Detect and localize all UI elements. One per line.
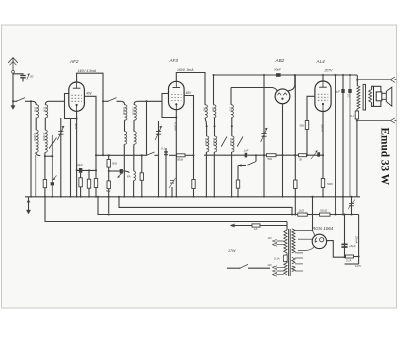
coil L7a	[206, 126, 208, 152]
wire T1 mid	[285, 253, 287, 255]
wire V5 left	[298, 238, 312, 240]
wire R6 to bus	[108, 189, 110, 197]
antenna A1	[8, 58, 18, 74]
transformer T2 core	[363, 84, 365, 110]
coil L3b	[134, 101, 137, 120]
wire V4 grid	[307, 96, 315, 120]
wire L3b down	[133, 120, 135, 131]
label Emud 33 W	[379, 128, 391, 186]
svg-text:AF2: AF2	[69, 59, 79, 64]
svg-text:AF3: AF3	[169, 58, 179, 63]
svg-text:207V: 207V	[324, 69, 334, 73]
label 140V 4.5mA	[78, 69, 97, 73]
wire V4 anode	[322, 75, 324, 81]
wire grid bus seg5	[137, 100, 162, 102]
wire L9 to bus	[231, 152, 233, 197]
wire x52 down	[51, 135, 53, 156]
wire screen bus y155	[95, 154, 147, 156]
wire R14 down	[306, 130, 308, 156]
svg-text:50: 50	[30, 75, 34, 79]
tube V1 AF2	[69, 82, 85, 111]
resistor R18	[236, 166, 241, 197]
wire L5 to bus	[133, 181, 135, 197]
svg-text:0.5036: 0.5036	[229, 138, 233, 146]
transformer T1 primary lower	[284, 263, 287, 275]
transformer T1 sec HV	[292, 229, 295, 253]
switch S8 mains	[227, 264, 270, 268]
transformer T1 sec heater1	[292, 257, 295, 264]
fuse F3 0.1A	[274, 255, 287, 262]
wire V3 grid	[231, 88, 277, 92]
grid box V1	[65, 94, 77, 119]
svg-text:345: 345	[203, 107, 207, 112]
wire R15 to bus	[322, 188, 324, 197]
capacitor C5	[109, 169, 130, 178]
svg-text:0.80: 0.80	[34, 107, 38, 113]
svg-text:17W: 17W	[228, 249, 236, 253]
resistor R2	[79, 178, 82, 197]
wire R20 down	[356, 119, 358, 197]
coil L1b	[45, 101, 48, 118]
resistor R1	[43, 180, 46, 188]
wire speaker terminal line top	[357, 79, 390, 81]
wire x312 drop	[312, 196, 314, 231]
coil L2a	[36, 130, 38, 152]
svg-text:127V: 127V	[355, 264, 361, 268]
svg-text:48V: 48V	[186, 91, 193, 95]
svg-text:51kΩ: 51kΩ	[320, 209, 328, 213]
label 48V	[186, 91, 193, 95]
svg-text:0.1A: 0.1A	[346, 259, 352, 263]
wire x70 down	[70, 119, 72, 197]
wire grid bus seg3	[49, 100, 65, 102]
resistor R7	[140, 155, 143, 197]
wire antenna tap	[13, 73, 23, 76]
wire det line y155	[204, 154, 246, 156]
resistor R19	[294, 180, 297, 216]
switch S3	[103, 98, 117, 102]
label coil values 5	[204, 138, 233, 146]
wire C4 down	[80, 173, 82, 178]
coil L9	[232, 136, 234, 152]
mains tap arrows bottom	[267, 264, 284, 276]
coil L3a	[121, 101, 127, 120]
capacitor C4 10uF	[76, 163, 83, 173]
svg-text:0.0082: 0.0082	[33, 133, 37, 141]
capacitor C13 0.1	[347, 75, 352, 197]
resistor R3	[87, 170, 90, 197]
wire L6a bend	[205, 118, 208, 127]
svg-text:0.1: 0.1	[350, 114, 354, 118]
wire x295 drop	[294, 75, 296, 198]
svg-text:1kΩ: 1kΩ	[299, 209, 305, 213]
wire V2 cathode down	[174, 110, 178, 197]
wire V5 anode right	[327, 241, 346, 259]
wire L1b down	[44, 118, 46, 130]
resistor R15 50	[321, 179, 333, 188]
wire V4 cathode	[321, 112, 325, 179]
wire V1 screen 40V	[84, 96, 96, 178]
tube V5 RGN1064	[312, 234, 326, 248]
capacitor C9 2uF	[334, 75, 345, 216]
label coil values 3	[122, 107, 136, 115]
coil L5 osc	[127, 171, 136, 181]
label tube V4 AL4	[316, 59, 326, 64]
wire speaker terminal line bottom	[357, 120, 391, 122]
coil L8	[231, 105, 233, 118]
resistor R12 5k	[299, 154, 325, 162]
wire L4b tail	[133, 144, 135, 171]
wire x335 down	[335, 74, 337, 216]
wire T2 sec top	[372, 86, 374, 89]
wire antenna down	[12, 73, 14, 101]
switch S4 osc	[146, 152, 159, 156]
svg-text:500k: 500k	[177, 158, 184, 162]
wire x282 heater	[282, 196, 284, 198]
capacitor C7 1nF	[244, 149, 267, 158]
wire V2 anode	[176, 73, 205, 105]
switch S5	[221, 137, 227, 147]
wire L2a to bus	[36, 152, 41, 196]
wire x108 drop	[108, 196, 110, 214]
resistor R11 50k	[267, 154, 299, 161]
wire y170 link	[77, 169, 97, 171]
wire R5-R6	[108, 167, 110, 181]
svg-text:25mA: 25mA	[355, 235, 359, 243]
coil L7b	[214, 136, 216, 152]
wire feed right	[330, 214, 359, 258]
resistor R5 5k	[107, 155, 118, 167]
wire feed mid	[307, 214, 319, 216]
wire T1 sec stubs	[295, 253, 303, 271]
speaker terminal top	[391, 77, 397, 82]
wire fuse right	[345, 215, 360, 265]
svg-text:FA: FA	[127, 175, 131, 179]
mains tap arrows top	[268, 237, 284, 246]
svg-text:110: 110	[268, 237, 272, 240]
label coil values 4	[203, 107, 233, 112]
wire L3a down	[124, 120, 126, 131]
coil L4b	[134, 132, 136, 145]
svg-text:5kΩ: 5kΩ	[112, 162, 118, 166]
svg-text:0.5030: 0.5030	[42, 133, 46, 141]
wire B+ to L6b	[213, 74, 215, 105]
switch S2 band	[49, 138, 57, 149]
svg-text:AB2: AB2	[275, 58, 285, 63]
capacitor C6 0.1uF	[161, 147, 168, 197]
speaker LS frame	[374, 86, 381, 106]
wire grid bus seg2	[25, 100, 33, 102]
svg-text:50k: 50k	[268, 157, 273, 161]
wire grid bus seg1	[13, 100, 17, 102]
svg-text:0.1A: 0.1A	[274, 257, 280, 261]
coil L6a	[205, 105, 207, 118]
speaker LS cone	[382, 87, 392, 106]
coil L2b	[45, 130, 47, 152]
transformer T1 sec heater2	[292, 266, 295, 272]
svg-text:50Ω: 50Ω	[327, 182, 333, 186]
wire L6b bend	[214, 118, 216, 136]
svg-text:40V: 40V	[86, 92, 93, 96]
svg-text:0.1: 0.1	[347, 94, 351, 98]
coil L1a	[33, 101, 39, 118]
svg-text:0.1: 0.1	[161, 147, 165, 151]
node grid-bus left	[12, 100, 14, 102]
wire branch x31	[30, 100, 32, 197]
wire bus B	[118, 196, 292, 215]
wire V5 filament	[298, 246, 314, 250]
wire T1 top lead	[286, 222, 288, 231]
svg-text:0.5036: 0.5036	[132, 107, 136, 115]
node anode-drop	[102, 100, 104, 102]
wire T1 mid2	[285, 262, 287, 263]
tuning capacitor VC3	[261, 75, 268, 197]
wire V5 top	[313, 231, 316, 237]
wire T2 sec bottom	[372, 103, 374, 107]
tube V4 AL4	[315, 81, 331, 112]
resistor R10	[192, 180, 195, 197]
wire V3 anode	[288, 74, 296, 91]
wire x231 grid	[230, 88, 232, 105]
coil L6b	[214, 105, 216, 118]
resistor R8 500k	[169, 154, 194, 162]
wire B+ to T2	[356, 75, 358, 85]
svg-text:3mA: 3mA	[74, 123, 78, 129]
grid box V2	[162, 94, 176, 118]
svg-text:220: 220	[267, 264, 273, 267]
label 160V 3mA	[177, 68, 194, 72]
svg-text:10μF: 10μF	[76, 163, 83, 167]
transformer T2 primary	[357, 85, 360, 109]
tube V3 AB2	[275, 89, 290, 104]
svg-text:1A: 1A	[254, 227, 258, 231]
svg-text:AL4: AL4	[316, 59, 326, 64]
svg-text:RGN 1064: RGN 1064	[312, 226, 334, 231]
transformer T2 secondary	[369, 90, 372, 103]
capacitor C11 8uF	[341, 235, 358, 248]
coil L4a	[124, 132, 126, 145]
switch S1	[16, 98, 25, 102]
speaker LS voice coil	[376, 92, 382, 101]
resistor R20	[350, 111, 358, 119]
label tube V3 AB2	[275, 58, 285, 63]
wire bus C	[97, 196, 298, 216]
svg-text:355: 355	[211, 107, 215, 112]
svg-text:1nF: 1nF	[244, 149, 249, 153]
wire V1 anode	[77, 73, 103, 101]
wire x103 down	[102, 101, 104, 155]
svg-text:0.5030: 0.5030	[212, 138, 216, 146]
svg-text:0.5030: 0.5030	[122, 107, 126, 115]
speaker terminal bottom	[391, 118, 397, 123]
svg-text:0.50: 0.50	[43, 107, 47, 113]
label tube V5 RGN1064	[312, 226, 334, 231]
svg-text:0.0082: 0.0082	[204, 138, 208, 146]
label coil values 2	[33, 133, 46, 141]
svg-text:+8μF: +8μF	[349, 244, 356, 248]
transformer T1 core	[289, 229, 291, 276]
resistor R17 51k	[320, 209, 331, 217]
switch S7	[240, 154, 257, 166]
svg-text:50pF: 50pF	[274, 68, 281, 72]
svg-text:50mA: 50mA	[321, 124, 325, 132]
wire R4 to bus	[95, 188, 97, 197]
resistor R4	[94, 179, 97, 188]
wire ground bus	[25, 196, 360, 198]
wire V3 cathode	[282, 104, 284, 197]
wire T1 pilot join	[286, 225, 288, 227]
tuning capacitor VC2	[155, 121, 162, 197]
wire B+ bus	[214, 74, 358, 76]
svg-text:160V, 3mA: 160V, 3mA	[177, 68, 194, 72]
svg-text:140V 4.5mA: 140V 4.5mA	[78, 69, 97, 73]
label tube V1 AF2	[69, 59, 79, 64]
svg-text:Emud 33 W: Emud 33 W	[379, 128, 391, 186]
resistor R6 50k	[106, 181, 111, 193]
wire L7b down	[213, 152, 215, 197]
wire V2 screen	[184, 96, 194, 180]
wire T2 primary bottom	[356, 109, 358, 111]
ground arrow GND1	[11, 101, 15, 109]
trimmer R9	[169, 178, 176, 197]
wire T1 HV top lead	[295, 230, 313, 232]
tube V2 AF3	[169, 81, 185, 109]
capacitor C8 50pF	[274, 68, 281, 77]
trimmer C1 50pF	[20, 74, 33, 82]
ground symbol GND2	[26, 197, 30, 214]
svg-text:50k: 50k	[299, 124, 304, 128]
wire V1 cathode down	[74, 111, 78, 197]
capacitor C2	[51, 156, 57, 197]
wire pilot line	[231, 224, 288, 227]
wire L1a down	[35, 118, 38, 130]
switch S6	[237, 137, 243, 147]
wire L8 bend	[231, 118, 233, 136]
svg-text:2μF: 2μF	[334, 89, 340, 93]
wire x146 down	[146, 101, 148, 155]
wire L4a to bus	[123, 144, 125, 197]
label coil values 1	[34, 107, 47, 113]
tone control C12	[348, 196, 355, 216]
fuse F1	[252, 224, 260, 231]
label 207V	[324, 69, 334, 73]
label 40V	[86, 92, 93, 96]
label tube V2 AF3	[169, 58, 179, 63]
wire grid bus seg4	[117, 100, 122, 102]
resistor R14 50k	[299, 121, 308, 130]
wire L7a to bus	[205, 152, 207, 197]
svg-text:375: 375	[229, 107, 233, 112]
wire bus D	[44, 196, 287, 222]
fuse F2	[345, 255, 362, 268]
svg-text:4.5mA: 4.5mA	[174, 122, 178, 131]
trimmer R13 vol	[311, 151, 320, 160]
label 17W	[228, 249, 236, 253]
tuning capacitor VC1	[57, 118, 64, 197]
resistor R16 1k	[298, 209, 308, 217]
transformer T1 primary upper	[284, 230, 287, 253]
wire L2b to bus	[44, 152, 53, 196]
